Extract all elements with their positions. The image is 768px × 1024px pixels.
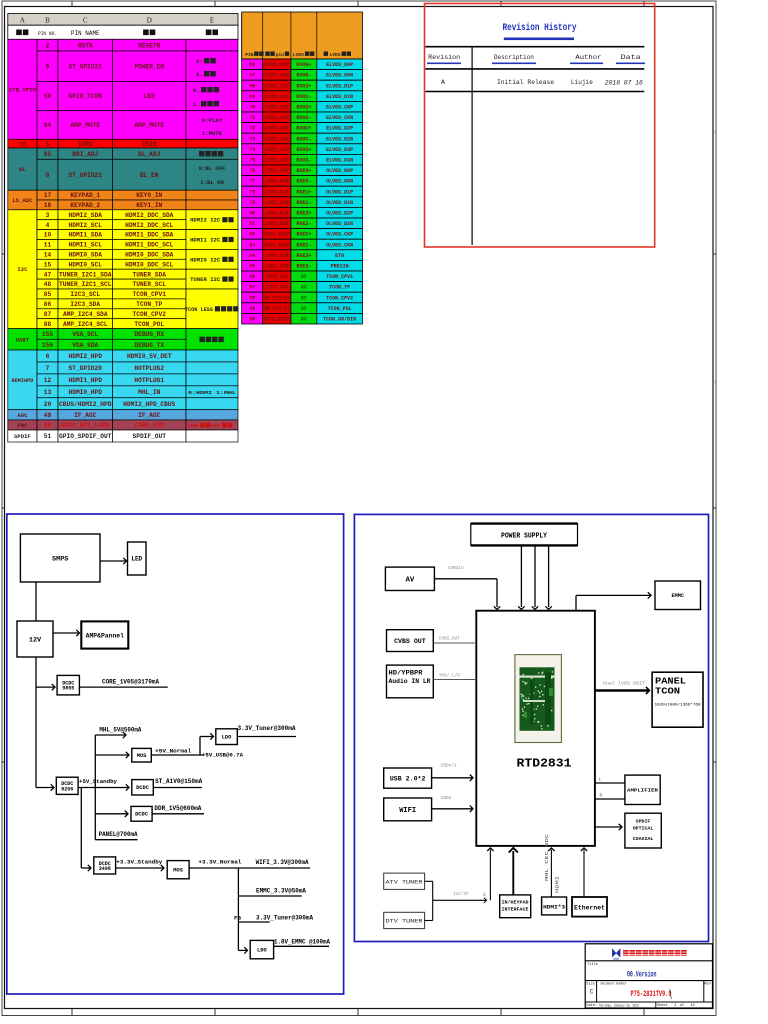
svg-text:of: of — [680, 1003, 684, 1008]
svg-text:Rev: Rev — [704, 982, 711, 986]
3.3V branch vertical — [237, 868, 239, 950]
label ST_A1V0@150mA — [155, 778, 202, 785]
SMPS box — [20, 534, 100, 582]
wire AV to chip — [434, 579, 500, 610]
power supply wires to chip — [518, 545, 552, 609]
DTV tuner box — [384, 912, 425, 928]
Ethernet box — [572, 897, 607, 917]
pin table section LS_ADC (orange) — [8, 190, 238, 210]
MOS box (5V) — [132, 748, 152, 762]
svg-text:P75-2831TV9.0: P75-2831TV9.0 — [631, 989, 672, 999]
doc number P75-2831TV9.0 — [631, 989, 672, 999]
label +5V_USB@0.7A — [202, 752, 244, 759]
label CVBSin — [448, 566, 464, 571]
wire bus to DCDC DDR — [95, 811, 128, 817]
label DDR_1V5@600mA — [154, 805, 201, 812]
tuner join bracket — [425, 881, 433, 920]
border zone ticks top — [72, 1, 644, 7]
AMPLIFIER box — [625, 775, 660, 804]
tuner wire to chip — [433, 848, 494, 903]
pin table row IR (red) — [8, 139, 238, 148]
wire bus to MOS — [95, 752, 129, 758]
wire WIFI to chip — [432, 806, 473, 812]
AMP&Pannel box — [81, 621, 128, 648]
CORE output wire — [79, 686, 167, 688]
label PANEL@700mA — [99, 831, 138, 838]
WIFI box — [384, 798, 432, 821]
company name (CJK) — [623, 950, 688, 956]
+3.3V normal bus — [189, 867, 310, 869]
svg-text:Thursday, January 10, 2013: Thursday, January 10, 2013 — [599, 1003, 639, 1008]
label HDMI (vertical) — [556, 875, 561, 893]
EMMC box — [655, 581, 701, 610]
pin table section UART (green) — [8, 329, 238, 350]
svg-text:12: 12 — [690, 1004, 695, 1008]
branch wire to DCDC 3408 — [81, 788, 91, 872]
label 3 (bus count) — [483, 893, 486, 898]
pin table section BL (teal) — [8, 148, 238, 190]
pin table column letter header row — [8, 14, 238, 26]
right diagram blue frame — [354, 514, 708, 941]
pin table row SPDIF — [8, 430, 238, 442]
date row — [586, 1002, 695, 1008]
title block frame — [585, 944, 712, 1008]
svg-text:Date:: Date: — [586, 1004, 597, 1008]
label +5V_Standby — [79, 778, 118, 785]
wire 12V to AMP&Pannel — [53, 630, 80, 636]
label Dual LVDS 6BIT — [603, 682, 645, 687]
pin table row PWC — [8, 420, 238, 430]
MOS box (3.3V) — [167, 861, 189, 879]
svg-text:C: C — [590, 988, 594, 995]
MHL output wire — [95, 732, 126, 738]
border zone ticks bottom — [72, 1009, 644, 1016]
pin table section I2C (yellow) — [8, 210, 239, 329]
pin table section STB_GPIO (magenta) — [8, 39, 238, 139]
revision history red frame — [425, 4, 655, 248]
revision row A — [441, 79, 643, 88]
company logo — [612, 948, 620, 960]
wire chip to spdif — [595, 824, 622, 830]
pin table row AGC — [8, 410, 238, 420]
label 3.3V_Tuner@300mA — [238, 725, 296, 732]
IR arrow to chip — [509, 848, 518, 895]
wire 8206 to DCDC ST — [78, 784, 129, 790]
audio R wire — [595, 794, 625, 800]
PANEL TCON box — [652, 672, 703, 727]
wire up to LDO — [200, 733, 214, 755]
left diagram blue frame — [7, 514, 344, 994]
LVDS table body rows pins 66-90 — [242, 59, 363, 324]
revision history title — [503, 22, 578, 40]
12V trunk wire down — [35, 657, 37, 788]
12V box — [17, 621, 53, 657]
RTD2831 main chip — [476, 611, 595, 846]
rev tick mark — [670, 989, 672, 999]
PANEL output wire — [95, 839, 137, 841]
wire chip to EMMC — [576, 592, 651, 611]
label MHL CEC DDC (vertical) — [545, 833, 550, 881]
HD/YPBPR audio box — [387, 665, 434, 698]
pin table header row — [8, 25, 238, 39]
label USBx1 — [441, 763, 457, 768]
label FB — [234, 915, 241, 922]
ST output wire — [153, 787, 202, 789]
svg-text:Sheet: Sheet — [657, 1003, 668, 1008]
wire to DCDC 9855 — [36, 684, 55, 690]
DCDC DDR box — [131, 806, 152, 821]
rev cell — [704, 981, 712, 1002]
wire to DCDC 8206 — [36, 784, 54, 790]
label MHL_5V@500mA — [99, 727, 141, 734]
Ethernet wire to chip — [581, 848, 587, 897]
border zone ticks right — [713, 254, 716, 762]
label USB2 — [441, 796, 452, 801]
FB tuner wire — [238, 921, 269, 923]
label EMMC_3.3V@50mA — [256, 887, 306, 894]
wire USB to chip — [432, 775, 473, 781]
chip name RTD2831 — [517, 758, 572, 771]
+5V standby bus vertical — [94, 735, 96, 840]
DCDC ST box — [132, 780, 154, 795]
USB box — [384, 768, 432, 788]
revision table rules — [425, 47, 644, 245]
LVDS wire to panel — [595, 687, 650, 694]
svg-text:Title: Title — [587, 962, 598, 967]
label 3.3V_Tuner@300mA (fb) — [256, 915, 313, 922]
HDMI*3 box — [542, 897, 567, 915]
+5V_Normal wire — [151, 754, 204, 756]
size cell — [586, 981, 596, 1002]
label +5V_Normal — [155, 747, 192, 754]
DCDC 8206 box — [56, 777, 78, 794]
label CORE_1V05@3170mA — [102, 679, 159, 686]
title 00.Version — [627, 970, 657, 980]
1.8V output wire — [274, 945, 329, 947]
LED box — [128, 542, 147, 575]
wire 3408 to MOS — [116, 865, 164, 871]
LVDS table orange header — [242, 12, 363, 59]
label Document Number — [601, 981, 627, 986]
EMMC 3.3V wire — [238, 895, 301, 897]
label +3.3V_Standby — [116, 859, 163, 866]
wire SMPS to LED — [100, 558, 127, 564]
SPDIF optical coaxial box — [625, 813, 661, 848]
svg-text:Size: Size — [586, 981, 595, 986]
label CVBS OUT net — [439, 637, 460, 642]
label I2C/IF — [453, 892, 469, 897]
wire CVBS to chip — [433, 642, 476, 644]
DDR output wire — [152, 813, 204, 815]
LDO box (tuner) — [216, 729, 238, 745]
IR/KEYPAD interface box — [500, 895, 531, 918]
label 1.8V_EMMC @100mA — [274, 938, 330, 945]
HDMI wire to chip — [548, 848, 554, 897]
wire ypbpr to chip — [433, 679, 476, 681]
PCB photo (green board) — [515, 655, 562, 743]
revision table headers — [427, 54, 645, 64]
border zone ticks left — [2, 254, 5, 762]
CVBS OUT box — [387, 630, 434, 652]
audio L wire — [595, 778, 625, 784]
svg-text:00.Version: 00.Version — [627, 970, 657, 980]
label WIFI_3.3V@300mA — [256, 859, 309, 866]
label +3.3V_Normal — [198, 859, 242, 866]
zone labels right margin — [714, 131, 716, 385]
pin table section HDMIHPD (cyan) — [8, 350, 238, 410]
wire SMPS to 12V — [35, 582, 37, 621]
POWER SUPPLY box — [471, 524, 578, 546]
svg-text:Document Number: Document Number — [601, 981, 627, 986]
label YPb L/R — [439, 674, 460, 679]
AV box — [385, 567, 434, 590]
DCDC 3408 box — [94, 857, 116, 874]
LDO output wire — [237, 736, 296, 738]
label Title — [587, 962, 598, 967]
wire to LDO 1.8V — [238, 947, 247, 953]
DCDC 9855 box — [57, 675, 79, 695]
LDO box (1.8V) — [250, 940, 273, 958]
ATV tuner box — [384, 873, 425, 889]
